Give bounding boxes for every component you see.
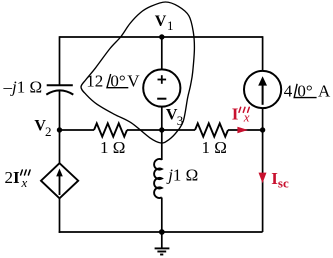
svg-text:4: 4 bbox=[284, 81, 293, 100]
wire middle vertical: inductor to bottom bbox=[161, 198, 163, 233]
short-circuit current arrow Isc (red) bbox=[259, 173, 267, 184]
wire left rail upper bbox=[59, 36, 61, 84]
current source 4A circle bbox=[244, 71, 281, 108]
node V1 junction dot bbox=[159, 34, 164, 39]
svg-text:V: V bbox=[127, 71, 140, 90]
wire top rail bbox=[60, 36, 263, 38]
svg-text:0°: 0° bbox=[110, 71, 125, 90]
wire middle horizontal: R2 to right rail bbox=[228, 129, 263, 131]
junction dot bottom middle bbox=[159, 229, 165, 235]
svg-text:I: I bbox=[232, 105, 239, 124]
wire middle horizontal: R1 to V3 to R2 bbox=[127, 129, 195, 131]
svg-text:j1 Ω: j1 Ω bbox=[166, 165, 198, 184]
svg-text:A: A bbox=[318, 81, 331, 100]
dependent source 2Ix''' diamond bbox=[41, 163, 78, 198]
wire right rail lower bbox=[262, 108, 264, 232]
resistor R 1ohm left bbox=[94, 123, 127, 136]
junction dot right middle bbox=[260, 127, 265, 132]
resistor 1 ohm right bbox=[195, 123, 228, 136]
svg-text:V: V bbox=[155, 13, 167, 30]
svg-text:1: 1 bbox=[167, 18, 174, 33]
svg-text:1 Ω: 1 Ω bbox=[202, 138, 227, 157]
ground bbox=[155, 232, 170, 255]
svg-text:x: x bbox=[21, 175, 28, 190]
wire middle vertical: VS to V3 bbox=[161, 107, 163, 131]
capacitor -j1 bbox=[46, 85, 73, 94]
svg-text:12: 12 bbox=[86, 71, 103, 90]
inductor j1 ohm bbox=[154, 159, 162, 198]
svg-text:1 Ω: 1 Ω bbox=[100, 138, 125, 157]
svg-text:3: 3 bbox=[177, 113, 184, 128]
supernode ellipse bbox=[81, 2, 194, 143]
svg-text:Isc: Isc bbox=[271, 169, 289, 190]
svg-text:2: 2 bbox=[45, 124, 52, 139]
svg-text:x: x bbox=[243, 110, 250, 125]
wire middle vertical upper: V1 to VS bbox=[161, 37, 163, 70]
wire bottom rail bbox=[59, 231, 263, 233]
node V3 junction dot bbox=[159, 127, 164, 132]
label Ix''' red bbox=[232, 105, 250, 125]
wire middle horizontal: V2 to R1 bbox=[60, 129, 95, 131]
wire right rail upper bbox=[262, 36, 264, 71]
svg-text:–j1 Ω: –j1 Ω bbox=[3, 78, 43, 97]
svg-text:2I: 2I bbox=[5, 168, 21, 187]
voltage source 12V circle bbox=[143, 69, 180, 106]
voltage source value 12/0 V bbox=[86, 71, 140, 90]
current arrow Ix''' (red) bbox=[237, 127, 248, 134]
node V2 junction dot bbox=[57, 127, 62, 132]
wire left rail lower bbox=[59, 198, 61, 233]
wire left rail mid bbox=[59, 90, 61, 163]
svg-text:0°: 0° bbox=[297, 81, 312, 100]
current source value 4/0 A bbox=[284, 81, 331, 100]
wire middle vertical: V3 to inductor bbox=[161, 130, 163, 160]
